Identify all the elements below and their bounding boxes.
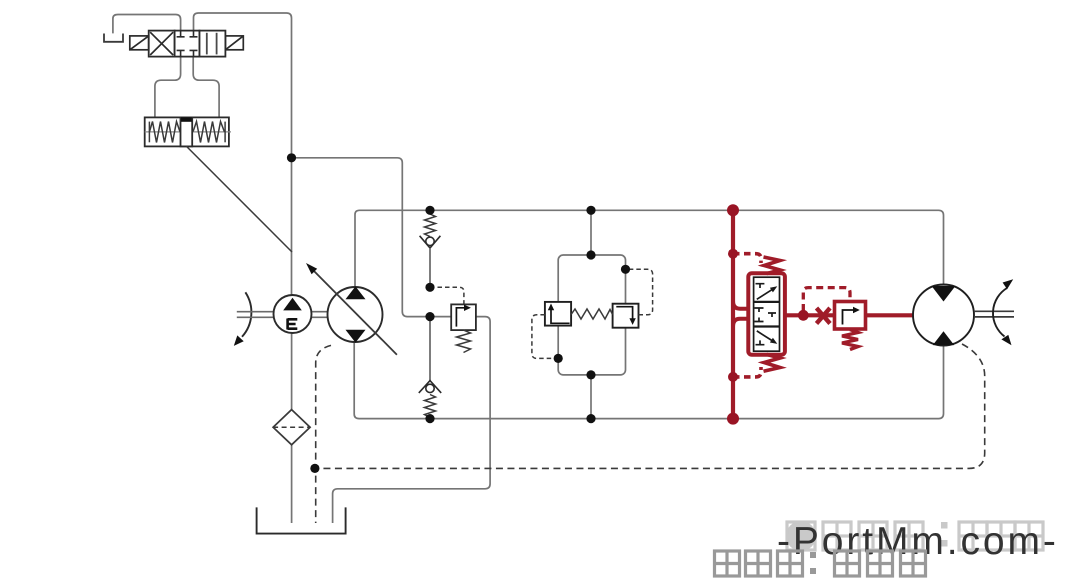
red pilot to shuttle bottom spring (dashed) bbox=[733, 367, 761, 377]
servo piston bbox=[181, 117, 193, 146]
wire loop stub bottom bbox=[590, 375, 592, 419]
red junction dots bbox=[727, 204, 809, 424]
shuttle top spring bbox=[764, 257, 781, 274]
SV1 top position arrow bbox=[756, 284, 773, 300]
wire node A to charge gallery (relief RV2 inlet) bbox=[292, 158, 452, 317]
charge relief valve RV2 bbox=[451, 304, 476, 330]
red pilot to shuttle top spring (dashed) bbox=[733, 254, 761, 263]
wire V1 A-port to servo cylinder left bbox=[155, 57, 181, 118]
drive shaft bbox=[237, 312, 328, 318]
valve V1 centre position blocked ports bbox=[177, 31, 198, 57]
pilot line RV4 (dashed) bbox=[532, 315, 554, 359]
input rotation arrow bbox=[242, 292, 251, 337]
solenoid valve V1 body bbox=[149, 31, 226, 57]
main variable pump P1 bbox=[328, 287, 383, 342]
shuttle valve SV1 position boxes bbox=[754, 277, 780, 351]
red pilot to RV3 (dashed) bbox=[803, 288, 850, 311]
watermark light grey CJK row bbox=[787, 522, 1043, 550]
SV1 bottom position arrow bbox=[756, 331, 773, 345]
check valve CV1 spring bbox=[425, 214, 436, 237]
wire valve V1 T-port to drain tank T1 bbox=[113, 15, 181, 34]
svg-text:-PortMm.com-: -PortMm.com- bbox=[777, 520, 1059, 563]
wire CV1 to charge gallery bbox=[429, 248, 431, 287]
servo piston cap bbox=[181, 117, 192, 121]
wire filter F1 to charge pump inlet bbox=[291, 333, 293, 409]
valve V1 left position crossed paths bbox=[150, 32, 173, 55]
shuttle valve port wire upper bbox=[733, 301, 750, 309]
valve V1 right position parallel paths bbox=[207, 33, 217, 55]
RV3 arrow bbox=[843, 310, 856, 325]
filter F1 bbox=[273, 410, 310, 445]
check valve CV1 poppet bbox=[426, 237, 434, 245]
centring spring left bbox=[149, 122, 180, 143]
RED flushing circuit bbox=[733, 209, 914, 420]
spring between RV4 and RV5 bbox=[571, 309, 613, 319]
centring spring right bbox=[193, 122, 224, 143]
servo cylinder centre line bbox=[145, 131, 231, 133]
watermark bold grey CJK row bbox=[715, 551, 926, 576]
wire top rail pump to motor bbox=[355, 210, 944, 287]
spring seat right bbox=[224, 122, 226, 143]
RV3 outlet wire to motor bbox=[866, 313, 914, 317]
wire loop stub top bbox=[590, 210, 592, 255]
charge pump E bbox=[274, 295, 312, 333]
drain tank T1 (top left) bbox=[104, 34, 123, 42]
variable displacement arrow bbox=[311, 268, 397, 355]
solenoid actuator left bbox=[130, 36, 149, 50]
pilot line RV5 (dashed) bbox=[630, 269, 653, 315]
plugged orifice X bbox=[817, 308, 831, 324]
RV3 spring bbox=[842, 330, 858, 350]
cross-port relief valve RV4 (left) bbox=[545, 302, 571, 326]
main tank T2 bbox=[257, 507, 346, 533]
red supply wire (loop tap) bbox=[731, 209, 735, 420]
wire valve V1 P-port to node A bbox=[194, 13, 292, 153]
wire bottom rail pump to motor bbox=[354, 342, 943, 418]
spring seat left bbox=[148, 122, 150, 143]
shuttle bottom spring bbox=[764, 354, 781, 371]
servo cylinder C1 barrel bbox=[145, 117, 229, 146]
mechanical link servo to swashplate bbox=[187, 146, 293, 252]
junction node dots (black) bbox=[287, 153, 630, 473]
cross-port relief valve RV5 (right) bbox=[613, 304, 639, 328]
RV2 spring bbox=[457, 330, 471, 352]
motor case drain (dashed) bbox=[319, 344, 985, 468]
pilot line to RV2 (dashed) bbox=[430, 287, 464, 304]
shuttle valve SV1 outline bbox=[748, 273, 785, 354]
SV1 centre position blocked ports bbox=[755, 308, 777, 322]
hydraulic motor M1 bbox=[913, 285, 974, 346]
shuttle output wire bbox=[785, 313, 835, 317]
check valve CV2 wire bbox=[429, 317, 431, 381]
wire RV2 outlet to tank T2 bbox=[333, 317, 491, 523]
wire suction tank T2 to filter F1 bbox=[291, 445, 293, 523]
check valve CV2 poppet bbox=[419, 381, 441, 393]
shuttle valve port wire lower bbox=[733, 319, 750, 327]
solenoid actuator right bbox=[225, 36, 243, 50]
motor shaft bbox=[974, 311, 1014, 317]
watermark wechat blob bbox=[786, 521, 816, 551]
wire charge pump outlet to node A bbox=[291, 158, 293, 295]
check valve CV2 spring bbox=[425, 395, 436, 418]
motor bidirectional rotation arrows bbox=[993, 288, 1007, 337]
wire dual-relief loop bbox=[558, 255, 625, 375]
pump case drain (dashed) bbox=[316, 345, 331, 523]
flushing relief valve RV3 bbox=[835, 302, 866, 330]
wire V1 B-port to servo cylinder right bbox=[193, 57, 219, 118]
WIRES-GRAY bbox=[113, 13, 944, 523]
